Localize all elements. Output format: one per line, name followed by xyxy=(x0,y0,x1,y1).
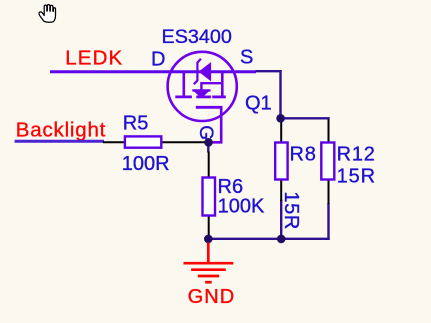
R6 pin 1 xyxy=(208,152,210,178)
R5 body xyxy=(125,136,161,147)
body circle xyxy=(168,52,237,121)
junction dot at GND rail left xyxy=(204,235,213,244)
body diode triangle xyxy=(200,63,211,80)
source contact bar xyxy=(221,72,224,97)
svg-text:R12: R12 xyxy=(337,143,376,165)
wire LEDK to Q1 drain rail xyxy=(50,70,256,73)
wire S corner down xyxy=(279,70,281,118)
gnd bar 2 xyxy=(191,268,226,271)
svg-text:R8: R8 xyxy=(290,143,317,165)
wire junction to R12 top xyxy=(281,117,330,119)
R12 pin 2 xyxy=(328,179,330,204)
middle channel segment xyxy=(196,96,211,99)
substrate arrow line xyxy=(192,89,210,91)
svg-text:100K: 100K xyxy=(218,196,265,218)
svg-text:15R: 15R xyxy=(337,165,376,187)
R5 pin 2 xyxy=(161,141,206,143)
wire R8 bottom riser xyxy=(280,200,282,239)
wire R6 top stub xyxy=(207,142,209,152)
svg-text:15R: 15R xyxy=(280,191,302,230)
R5 pin 1 xyxy=(103,141,125,143)
svg-text:GND: GND xyxy=(188,286,236,308)
transistor Q1 ES3400 xyxy=(168,52,237,143)
svg-text:S: S xyxy=(240,46,253,68)
svg-text:LEDK: LEDK xyxy=(65,47,123,70)
wire R12 bottom riser xyxy=(327,203,329,240)
resistor R8 xyxy=(275,119,287,201)
right channel segment xyxy=(212,96,226,99)
wire S to corner xyxy=(256,70,282,72)
resistor R5 xyxy=(103,136,206,147)
R8 pin 2 xyxy=(280,179,282,201)
left channel segment xyxy=(175,96,192,99)
svg-text:Q1: Q1 xyxy=(245,93,272,115)
wire bottom rail GND to R12 xyxy=(208,238,329,240)
R12 body xyxy=(321,143,334,180)
resistor R12 xyxy=(321,119,334,204)
gnd bar 3 xyxy=(198,275,219,278)
R8 pin 1 xyxy=(280,119,282,142)
R12 pin 1 xyxy=(328,119,330,142)
ground symbol xyxy=(184,243,234,283)
svg-text:G: G xyxy=(195,125,216,140)
R6 pin 2 xyxy=(208,216,210,237)
body diode zener bar xyxy=(194,59,201,84)
drain contact bar xyxy=(183,72,186,97)
svg-text:D: D xyxy=(151,48,165,70)
svg-text:Backlight: Backlight xyxy=(16,118,106,141)
svg-text:ES3400: ES3400 xyxy=(162,26,232,48)
svg-text:100R: 100R xyxy=(122,153,170,175)
junction dot at gate/R5/R6 xyxy=(204,138,213,147)
gnd stem xyxy=(207,243,210,264)
R8 body xyxy=(275,143,287,180)
junction dot at R8 bottom xyxy=(277,235,286,244)
R6 body xyxy=(203,178,216,216)
resistor R6 xyxy=(203,152,216,237)
svg-text:R5: R5 xyxy=(123,112,149,134)
junction dot at S/R8/R12 xyxy=(276,114,285,123)
gnd bar 4 xyxy=(205,281,212,284)
gate lead xyxy=(208,107,221,142)
hand cursor xyxy=(39,5,55,23)
gnd bar 1 xyxy=(184,262,234,265)
gate plate xyxy=(196,106,223,109)
substrate bracket xyxy=(201,83,222,90)
substrate arrow head xyxy=(195,91,209,97)
wire Backlight xyxy=(15,140,104,143)
svg-text:R6: R6 xyxy=(218,176,244,198)
